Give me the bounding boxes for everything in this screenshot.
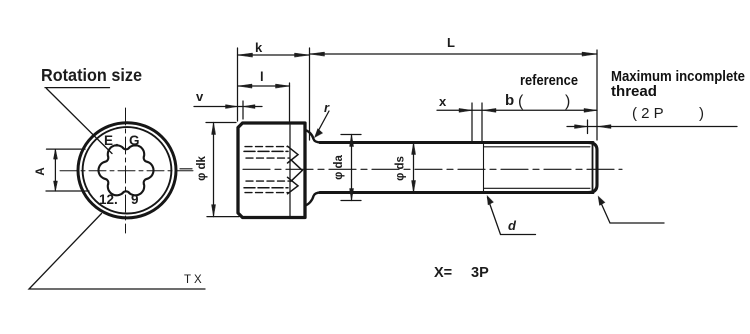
thread end chamfer line: [592, 144, 594, 192]
dimension line l: [238, 85, 290, 87]
label b ( ): [505, 92, 570, 110]
da arrow top: [350, 135, 354, 147]
shank bottom edge: [320, 191, 593, 194]
hexalobular socket outline: [99, 145, 154, 195]
dimension line x and b: [437, 109, 597, 111]
svg-text:12.: 12.: [99, 192, 118, 207]
svg-text:reference: reference: [520, 73, 578, 89]
svg-text:): ): [565, 93, 570, 110]
k arrow right: [295, 53, 310, 57]
x ext line right: [481, 103, 483, 141]
svg-text:E: E: [104, 133, 113, 148]
screw head side view body: [238, 123, 305, 218]
label (2P): [632, 105, 704, 122]
circle view horizontal centerline: [60, 170, 193, 172]
2P arrow right: [598, 125, 611, 129]
socket cone chevron top: [288, 146, 299, 163]
dimension line dk: [213, 123, 215, 217]
socket depth line: [289, 125, 291, 216]
dimension line da: [351, 135, 353, 201]
leader Rotation size: [45, 88, 112, 154]
2P arrow left: [575, 125, 588, 129]
svg-text:x: x: [439, 94, 447, 109]
svg-text:3P: 3P: [471, 265, 489, 281]
da ext tick bottom: [341, 200, 361, 202]
thread end face: [588, 143, 597, 193]
l ext line: [289, 83, 291, 121]
svg-text:( 2 P: ( 2 P: [632, 105, 664, 122]
socket hidden line 1: [245, 146, 288, 148]
thread start line: [483, 143, 485, 192]
L arrow right: [582, 52, 597, 56]
v arrow left: [226, 105, 238, 109]
socket cone chevron middle: [291, 160, 302, 181]
svg-text:b: b: [505, 92, 514, 109]
b arrow left: [483, 108, 496, 112]
head chamfer circle: [83, 127, 172, 213]
svg-text:): ): [699, 105, 704, 122]
leader d arrow: [487, 196, 494, 206]
thread minor dia bottom: [484, 187, 590, 189]
v arrow right: [243, 105, 255, 109]
2P dimension line: [567, 126, 737, 128]
2P tick: [587, 120, 589, 134]
x ext line left: [471, 103, 473, 141]
dimension line v: [194, 106, 262, 108]
k arrow left: [238, 53, 253, 57]
thread minor dia top: [484, 146, 590, 148]
r leader: [316, 111, 329, 135]
svg-text:φ da: φ da: [333, 154, 345, 179]
label Maximum incomplete thread: [611, 69, 745, 100]
da ext tick top: [341, 134, 361, 136]
dimension line L: [310, 53, 598, 55]
svg-text:9: 9: [131, 192, 139, 207]
svg-text:A: A: [35, 167, 47, 175]
svg-text:r: r: [324, 100, 330, 115]
svg-text:TX: TX: [184, 274, 205, 286]
x arrow: [459, 108, 472, 112]
b arrow right: [584, 108, 597, 112]
leader d: [488, 198, 536, 235]
socket hidden line 3: [246, 157, 289, 159]
da arrow bottom: [350, 189, 354, 201]
svg-text:φ dk: φ dk: [196, 155, 208, 180]
svg-text:.: .: [115, 134, 119, 149]
dk ext bottom: [207, 216, 239, 218]
svg-text:thread: thread: [611, 84, 657, 100]
circle view vertical centerline: [125, 108, 127, 233]
svg-text:φ ds: φ ds: [395, 156, 407, 181]
leader thread end arrow: [598, 196, 605, 206]
svg-text:G: G: [129, 133, 140, 148]
dimension A line: [54, 149, 56, 191]
shank top edge: [320, 141, 593, 144]
marking text E.G: [104, 133, 140, 149]
svg-text:k: k: [255, 40, 263, 55]
dimension line ds: [413, 143, 415, 193]
ds arrow bottom: [412, 181, 416, 193]
svg-text:l: l: [260, 69, 264, 84]
L ext line tip: [596, 50, 598, 140]
leader thread end: [599, 199, 664, 224]
dimension line k: [238, 54, 310, 56]
l arrow left: [238, 84, 252, 88]
socket hidden line 2: [244, 150, 288, 152]
socket hidden line 4: [246, 180, 289, 182]
marking text 12.9: [99, 192, 139, 207]
dk ext top: [206, 122, 236, 124]
socket hidden line 5: [244, 187, 288, 189]
head circular view outer circle: [78, 123, 176, 218]
ds arrow top: [412, 143, 416, 155]
socket hidden line 6: [245, 192, 288, 194]
r leader arrow: [315, 129, 323, 138]
dimension A extension lines: [47, 148, 86, 150]
main centerline: [180, 168, 622, 171]
k-l ext line head left: [237, 48, 239, 121]
svg-text:d: d: [508, 218, 517, 233]
v ext line: [242, 101, 244, 119]
dimension A arrows: [54, 149, 58, 159]
L arrow left: [310, 52, 325, 56]
k-L ext line head right: [309, 48, 311, 140]
svg-text:(: (: [518, 93, 524, 110]
l arrow right: [276, 84, 290, 88]
leader TX: [29, 214, 205, 290]
svg-text:Maximum incomplete: Maximum incomplete: [611, 69, 745, 85]
dk arrow top: [212, 123, 216, 135]
dk arrow bottom: [212, 205, 216, 217]
label X = 3P: [434, 265, 489, 281]
socket cone chevron bottom: [288, 177, 299, 194]
svg-text:L: L: [447, 35, 455, 50]
svg-text:v: v: [196, 89, 204, 104]
svg-text:X=: X=: [434, 265, 452, 281]
svg-text:Rotation size: Rotation size: [41, 65, 142, 85]
under-head fillet bottom: [305, 193, 321, 206]
under-head fillet top: [305, 130, 321, 143]
